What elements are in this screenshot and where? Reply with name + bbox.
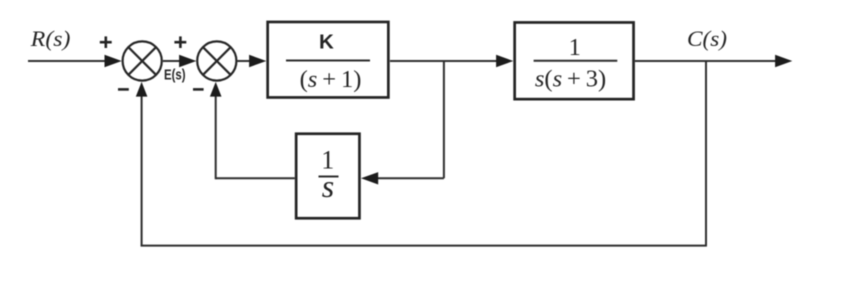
wire tap down to inner feedback — [443, 61, 445, 178]
arrowhead up into S1 — [136, 82, 148, 97]
wire tap down to outer feedback — [705, 61, 707, 246]
fraction bar H — [319, 176, 339, 178]
arrowhead into S2 — [179, 55, 196, 67]
fraction bar G2 — [534, 60, 618, 62]
wire outer feedback up to J1 — [141, 95, 143, 247]
svg-text:1: 1 — [569, 34, 581, 61]
sign minus at S2 — [193, 88, 204, 91]
wire J2 to block G1 — [238, 60, 252, 62]
wire block G2 to output — [635, 60, 776, 62]
svg-text:s: s — [322, 168, 334, 204]
fraction bar G1 — [286, 60, 370, 62]
svg-text:E(s): E(s) — [164, 67, 186, 83]
arrowhead into S1 — [105, 55, 122, 67]
wire block G1 to block G2 — [390, 60, 498, 62]
svg-text:s(s + 3): s(s + 3) — [535, 65, 606, 92]
svg-text:R(s): R(s) — [30, 26, 71, 51]
wire inner feedback up to J2 — [215, 95, 217, 179]
wire input R(s) — [28, 60, 108, 62]
sign minus at S1 — [118, 88, 129, 91]
block G2 1/(s(s+3)) — [515, 22, 634, 99]
block G1 K/(s+1) — [268, 22, 389, 98]
arrowhead output — [775, 55, 792, 67]
wire J1 to J2 — [163, 60, 182, 62]
wire outer feedback bottom segment — [141, 245, 707, 247]
arrowhead into block G1 — [249, 55, 266, 67]
svg-text:K: K — [319, 30, 334, 53]
svg-text:C(s): C(s) — [687, 26, 727, 51]
sign plus at S1 — [100, 36, 112, 48]
summing junction S2 — [197, 41, 236, 80]
wire inner feedback left segment — [216, 177, 295, 179]
arrowhead into block H (left pointing) — [361, 172, 378, 184]
wire inner feedback right segment — [377, 177, 444, 179]
svg-text:(s + 1): (s + 1) — [300, 66, 362, 93]
arrowhead up into S2 — [210, 82, 222, 97]
sign plus at S2 — [174, 36, 186, 48]
arrowhead into block G2 — [496, 55, 513, 67]
summing junction S1 — [123, 41, 162, 80]
block H 1/s — [296, 134, 359, 219]
